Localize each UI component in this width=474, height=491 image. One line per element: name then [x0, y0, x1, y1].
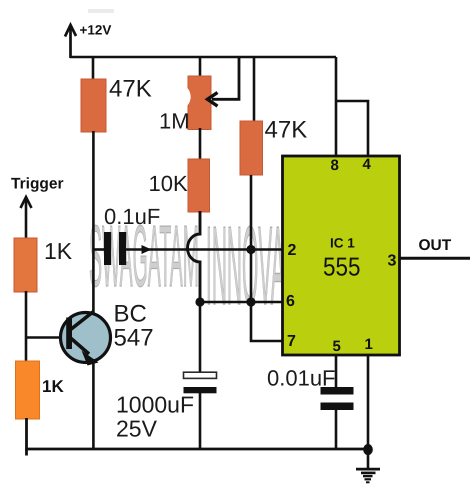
wire R1 top: [92, 57, 95, 82]
wire 1M to 10K: [199, 128, 202, 161]
svg-text:8: 8: [331, 157, 339, 174]
resistor 10K: [188, 159, 210, 212]
wire pin 6: [200, 301, 283, 304]
svg-text:OUT: OUT: [419, 237, 452, 254]
svg-text:3: 3: [388, 253, 397, 270]
wire pin 4 branch: [336, 101, 368, 156]
svg-text:0.1uF: 0.1uF: [104, 204, 160, 229]
svg-text:25V: 25V: [116, 416, 158, 442]
wire R2 bottom to pin 7: [251, 175, 283, 341]
svg-text:5: 5: [333, 338, 341, 355]
ground symbol: [356, 450, 380, 482]
svg-text:0.01uF: 0.01uF: [267, 366, 336, 391]
capacitor 0.1uF: [93, 232, 126, 265]
resistor R2 47K: [240, 121, 263, 175]
svg-text:7: 7: [287, 333, 296, 350]
wire 1M top: [199, 57, 202, 79]
transistor Q1 BC547: [61, 312, 111, 366]
faint smudge top: [88, 9, 114, 13]
svg-text:1K: 1K: [42, 377, 64, 396]
svg-text:6: 6: [286, 293, 295, 310]
wire pin 2 from 0.1uF: [126, 248, 283, 251]
IC U1 555: [283, 156, 400, 355]
wire emitter: [92, 359, 95, 449]
wire pin 3 OUT: [399, 257, 470, 260]
svg-text:555: 555: [323, 252, 361, 282]
resistor R3 1K: [14, 238, 37, 292]
+12V supply arrow: [65, 25, 76, 58]
wire R4 bottom to ground rail: [25, 418, 28, 456]
wire base: [26, 336, 62, 339]
svg-text:47K: 47K: [265, 117, 308, 144]
svg-text:+12V: +12V: [80, 23, 112, 38]
svg-text:Trigger: Trigger: [11, 176, 64, 193]
trigger arrow: [21, 197, 32, 240]
svg-text:IC 1: IC 1: [330, 236, 355, 251]
svg-text:1K: 1K: [44, 238, 73, 264]
wire junction to 1000uF: [199, 302, 202, 372]
arrowhead on pin2 wire: [142, 245, 152, 254]
wire 10K bottom with hop over pin2 wire: [188, 211, 201, 302]
svg-text:10K: 10K: [149, 171, 188, 196]
junction dot ground: [363, 444, 373, 455]
capacitor 0.01uF: [321, 387, 354, 450]
junction dot pin6/R2: [246, 297, 255, 306]
junction dot pin6/10K: [195, 297, 204, 306]
wire R2 top: [253, 57, 256, 123]
wire pin 8 (rail down): [335, 57, 338, 156]
potentiometer 1M: [187, 76, 211, 130]
svg-text:547: 547: [114, 325, 154, 352]
svg-text:2: 2: [288, 242, 297, 259]
wire pin 5: [335, 355, 338, 388]
svg-text:1: 1: [365, 336, 373, 353]
wire +12V rail: [70, 56, 336, 59]
svg-text:BC: BC: [114, 301, 147, 328]
wire pin 1: [367, 355, 370, 450]
svg-text:1M: 1M: [159, 109, 190, 134]
svg-text:47K: 47K: [109, 76, 152, 103]
watermark SWAGATAM INNOVATIONS: [89, 206, 318, 331]
resistor R1 47K: [81, 79, 106, 132]
svg-text:1000uF: 1000uF: [116, 392, 194, 418]
pot wiper arrow: [208, 57, 240, 106]
capacitor 1000uF: [184, 372, 217, 449]
junction dot pin2/R2: [246, 245, 255, 254]
wire R3 to R4: [25, 291, 28, 361]
svg-text:4: 4: [363, 156, 372, 173]
resistor R4 1K: [16, 361, 40, 419]
wire R1 bottom / collector: [92, 131, 95, 315]
